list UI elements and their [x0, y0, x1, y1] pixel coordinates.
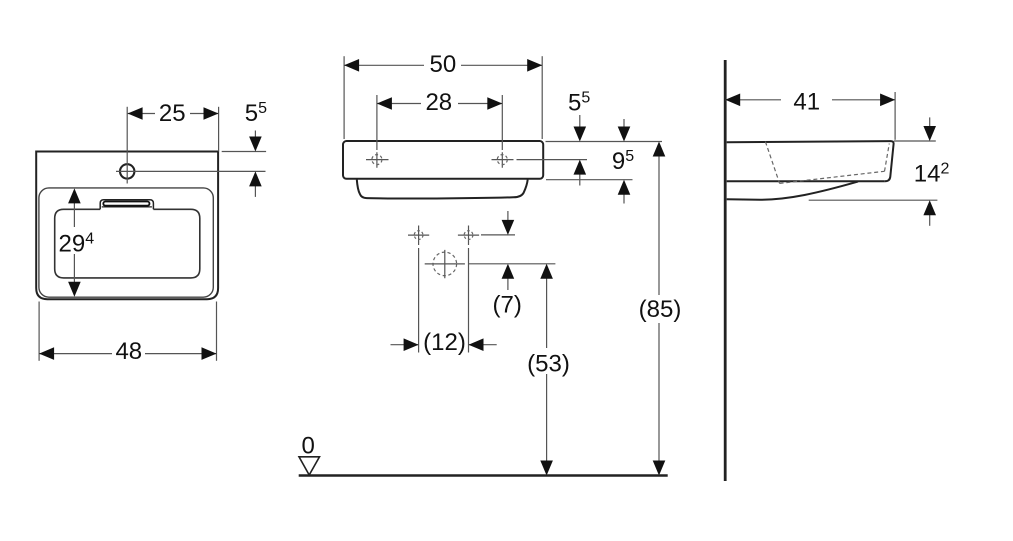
dim 29.4 arrow down	[68, 282, 81, 297]
svg-text:(12): (12)	[423, 329, 466, 356]
dim 25 line	[128, 113, 219, 115]
tap hole circle	[120, 164, 134, 178]
side view bottom edge	[727, 180, 885, 182]
wall line	[724, 60, 727, 481]
reference line fixing holes level	[481, 234, 515, 236]
dim 29.4 line	[73, 200, 75, 285]
dim 48 extension left	[38, 302, 40, 361]
dim 41 extension right	[894, 92, 896, 140]
front view rim outline	[343, 141, 543, 179]
svg-text:95: 95	[612, 148, 634, 175]
dim 9.5 arrow up	[623, 194, 625, 204]
reference line top edge extended right (side)	[894, 140, 936, 142]
dim 25 arrow right	[204, 107, 219, 120]
fixing hole left cross	[408, 226, 429, 246]
top view bowl outline	[55, 209, 200, 278]
top view outer outline	[36, 152, 218, 300]
dim 41 line	[725, 99, 895, 101]
reference line top edge extended right	[222, 151, 266, 153]
dim 28 line	[377, 103, 502, 105]
dim 5.5 arrow down (front view)	[579, 115, 581, 127]
dim 7 arrow down	[507, 211, 509, 221]
dim 12 arrow right-pointing	[404, 338, 419, 351]
tap hole right dashed circle	[497, 155, 507, 165]
svg-text:50: 50	[430, 51, 457, 78]
side view bowl dashed bottom	[780, 171, 885, 183]
dim 25 extension right	[218, 107, 220, 152]
dim 48 arrow left	[39, 347, 54, 360]
svg-text:55: 55	[245, 100, 267, 127]
dim 12 leader right	[469, 344, 497, 346]
svg-text:28: 28	[425, 89, 452, 116]
dim 12 arrow left-pointing	[469, 338, 484, 351]
svg-text:294: 294	[59, 230, 95, 257]
dim 53 arrow up	[540, 264, 553, 279]
drain dashed circle	[433, 252, 457, 276]
dim 41 arrow left	[725, 94, 740, 107]
overflow slot bump right	[102, 206, 152, 208]
dim 50 extension left	[343, 56, 345, 139]
reference line underside level	[809, 199, 938, 201]
overflow slot inner	[103, 202, 149, 206]
fixing hole right cross	[458, 226, 479, 246]
dim 50 arrow right	[527, 59, 542, 72]
front view apron outline	[357, 180, 528, 199]
dim 29.4 arrow up	[68, 188, 81, 203]
dim 25 arrow left	[128, 107, 143, 120]
dim 28 arrow right	[487, 97, 502, 110]
fixing hole right dashed circle	[464, 231, 473, 240]
dim 41 arrow right	[880, 94, 895, 107]
svg-text:48: 48	[115, 338, 142, 365]
dim 5.5 arrow up (front view)	[579, 174, 581, 186]
svg-text:55: 55	[568, 90, 590, 117]
dim 50 arrow left	[344, 59, 359, 72]
datum triangle	[299, 457, 320, 475]
reference line rim bottom extended right	[546, 179, 633, 181]
dim 28 extension left	[376, 95, 378, 150]
side view bowl dashed right	[885, 144, 890, 172]
dim 5.5 arrow down (left view)	[254, 131, 256, 139]
tap hole centerline horizontal	[116, 170, 140, 172]
dim 48 extension right	[216, 302, 218, 361]
dim 7 arrow up	[507, 278, 509, 290]
tap hole left dashed circle	[372, 155, 382, 165]
ground line	[299, 474, 668, 477]
side view bowl dashed left	[765, 142, 779, 184]
dim 9.5 arrow down	[623, 119, 625, 127]
dim 28 arrow left	[377, 97, 392, 110]
dim 50 line	[344, 64, 542, 66]
fixing hole extension left vertical	[418, 248, 420, 353]
svg-text:(53): (53)	[527, 350, 570, 377]
dim 14.2 arrow down	[929, 117, 931, 127]
drain cross	[425, 250, 465, 278]
reference line hole center extended right	[140, 170, 266, 172]
dim 48 line	[39, 353, 216, 355]
dim 53 line	[546, 278, 548, 462]
side view front edge	[885, 141, 894, 181]
fixing hole extension right vertical	[468, 248, 470, 353]
tap hole centerline vertical / extension of dim 25	[126, 107, 128, 184]
dim 12 leader left	[391, 344, 419, 346]
dim 53 arrow down	[540, 461, 553, 476]
reference line rim top extended right	[546, 141, 663, 143]
tap hole left cross	[366, 152, 389, 168]
tap hole right cross	[492, 152, 514, 168]
reference line tap hole level right	[517, 159, 588, 161]
dim 50 extension right	[541, 56, 543, 139]
svg-text:(85): (85)	[639, 296, 682, 323]
svg-text:25: 25	[159, 100, 186, 127]
dim 85 arrow up	[653, 142, 666, 157]
dim 85 arrow down	[653, 461, 666, 476]
svg-text:(7): (7)	[493, 292, 522, 319]
dim 28 extension right	[501, 95, 503, 150]
svg-text:41: 41	[793, 89, 820, 116]
svg-text:142: 142	[914, 161, 950, 188]
svg-text:0: 0	[302, 432, 315, 459]
top view deck inner edge	[39, 188, 213, 297]
side view underside curve	[727, 182, 858, 200]
side view top edge	[727, 141, 891, 142]
fixing hole left dashed circle	[414, 231, 423, 240]
dim 5.5 arrow up (left view)	[254, 185, 256, 197]
dim 48 arrow right	[202, 347, 217, 360]
overflow slot bump left	[100, 200, 153, 210]
dim 85 line	[658, 156, 660, 462]
dim 14.2 arrow up	[929, 214, 931, 226]
reference line drain level	[469, 263, 556, 265]
